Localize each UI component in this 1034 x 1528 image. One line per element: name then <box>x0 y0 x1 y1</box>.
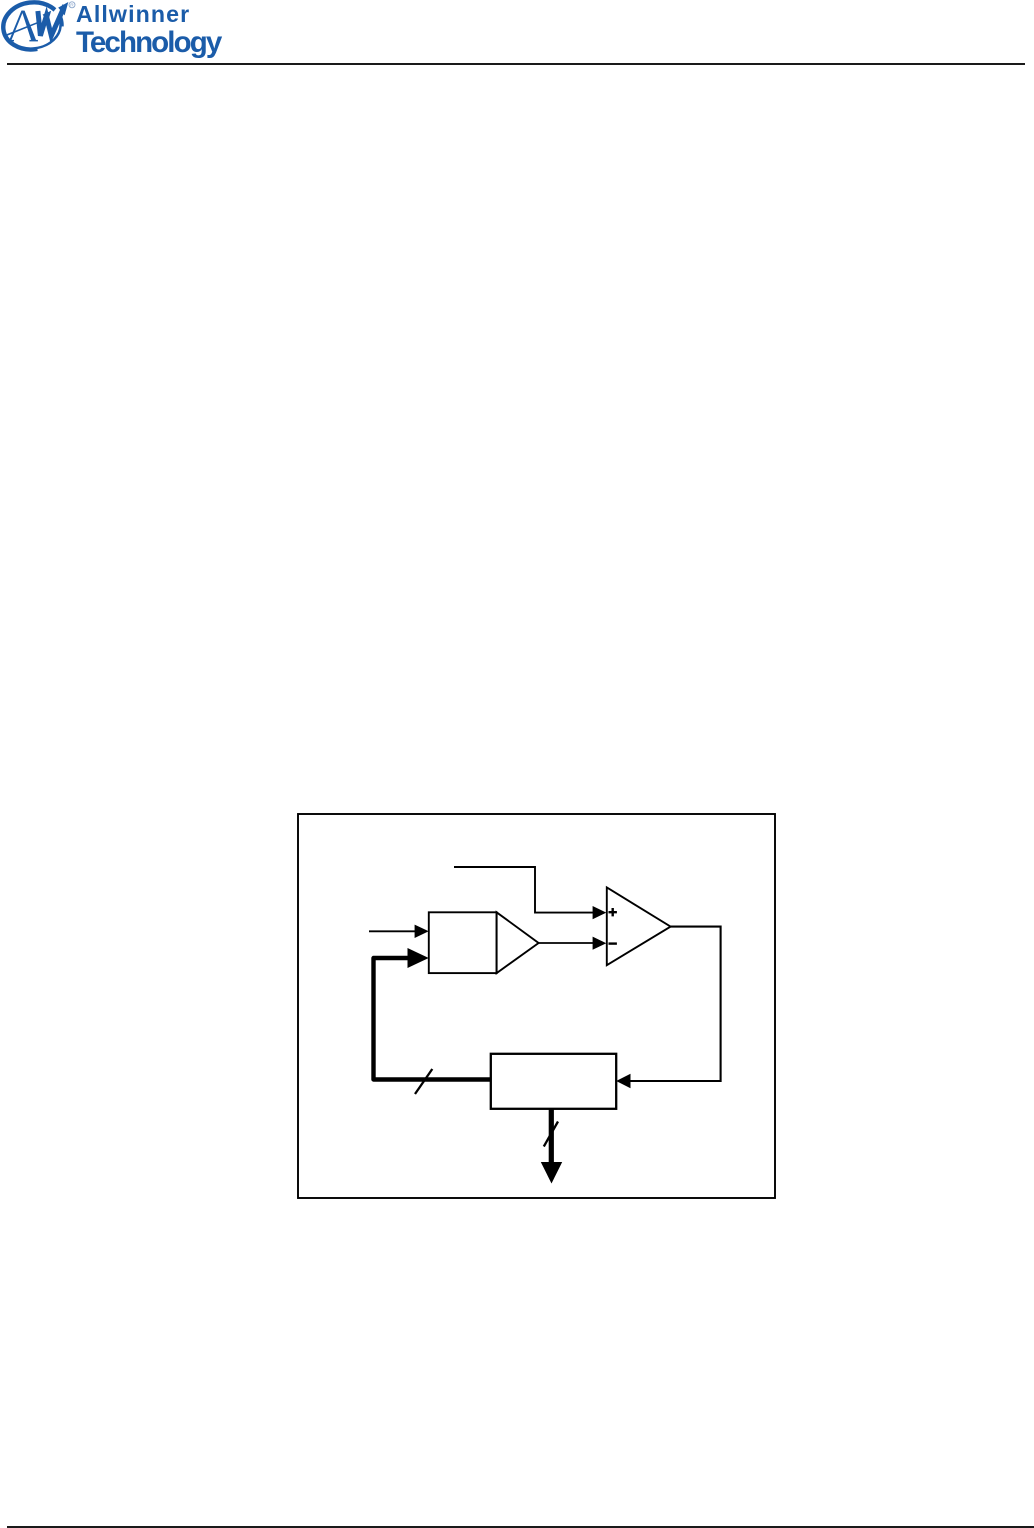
wire: analog input to DAC <box>369 930 416 932</box>
arrowhead output down <box>541 1162 562 1184</box>
comparator - label <box>609 942 617 944</box>
logo letter W with arrows <box>38 2 68 36</box>
wire: stepped net to comparator + input <box>454 867 595 913</box>
Allwinner logo mark <box>0 0 90 62</box>
logo letter A <box>5 11 39 42</box>
output bus width slash <box>544 1122 558 1147</box>
DAC output triangle <box>497 912 539 973</box>
DAC block U1 <box>429 912 497 973</box>
bus width slash <box>415 1069 432 1094</box>
footer rule <box>7 1526 1034 1528</box>
SAR register block U3 <box>491 1054 616 1109</box>
diagram frame <box>298 814 775 1198</box>
comparator + label <box>609 908 617 916</box>
registered trademark <box>69 2 75 9</box>
arrowhead into DAC top input <box>415 925 429 938</box>
wire: comparator output feedback to SAR register <box>629 927 721 1081</box>
header rule <box>7 63 1025 65</box>
Allwinner wordmark <box>76 3 190 26</box>
arrowhead into DAC bottom input <box>408 948 429 968</box>
arrowhead into - input <box>593 937 607 950</box>
wire: DAC output to comparator - input <box>539 942 594 944</box>
arrowhead into register right side <box>616 1074 630 1088</box>
logo ellipse ring <box>1 0 67 55</box>
comparator U2 <box>607 887 671 965</box>
bus: register to DAC (thick feedback bus) <box>374 958 491 1080</box>
bus: register data output <box>549 1109 554 1164</box>
arrowhead into + input <box>593 906 607 919</box>
